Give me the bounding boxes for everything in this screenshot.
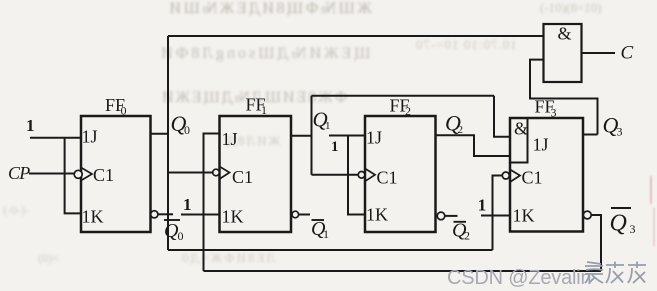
- pin 1J of FF0: [82, 127, 98, 147]
- pin C1 of FF0: [93, 165, 114, 185]
- output bubble Q-bar of FF2: [437, 212, 445, 220]
- label CP: [8, 163, 30, 183]
- wire: constant 1 to FF2 1J: [329, 135, 365, 137]
- watermark chinese glyphs: [584, 260, 646, 286]
- svg-text:3: 3: [617, 125, 623, 139]
- node Q2 label: [445, 111, 463, 137]
- svg-text:1K: 1K: [222, 207, 244, 227]
- svg-text:2: 2: [458, 124, 464, 136]
- wire: Q1 rail drop into FF3 AND input a: [494, 96, 510, 137]
- svg-text:1: 1: [325, 120, 331, 132]
- output bubble Q-bar of FF0: [151, 211, 158, 218]
- wire: Q3 output stub: [583, 134, 598, 136]
- clock bubble FF3: [502, 172, 509, 179]
- svg-text:1: 1: [183, 195, 192, 214]
- pin 1J of FF3: [533, 135, 549, 155]
- watermark CSDN: [447, 267, 591, 290]
- svg-text:2: 2: [464, 229, 470, 243]
- node Q0 label: [171, 111, 191, 137]
- svg-text:Q: Q: [610, 211, 627, 237]
- svg-text:1K: 1K: [82, 207, 104, 227]
- wire: Q1 mini rail to FF3 AND input: [312, 95, 495, 97]
- wire: Q3 up to top AND gate input: [530, 60, 598, 135]
- node Q-bar2 label: [452, 220, 470, 243]
- clock edge triangle FF0: [81, 168, 92, 181]
- svg-text:1J: 1J: [222, 129, 238, 149]
- constant 1 label at FF3 K input: [478, 196, 487, 215]
- flip-flop FF0 body: [81, 116, 151, 232]
- wire: FF2 1J to 1K connector: [348, 136, 365, 215]
- svg-text:1: 1: [26, 116, 35, 135]
- wire: Q0 to FF1 clock: [168, 172, 213, 174]
- node Q-bar1 label: [311, 218, 329, 241]
- svg-text:3: 3: [630, 222, 636, 236]
- flip-flop FF2 body: [365, 116, 436, 232]
- svg-text:0: 0: [184, 123, 190, 137]
- wire: top rail Q0 to AND gate input: [168, 35, 544, 37]
- svg-text:&: &: [514, 119, 528, 139]
- label & of FF3 AND cell: [514, 119, 528, 139]
- label FF3: [535, 97, 557, 120]
- faint pink bleed line (decorative): [650, 176, 652, 204]
- svg-text:C1: C1: [522, 168, 543, 188]
- svg-text:0: 0: [121, 104, 127, 118]
- wire: FF3 clock feed from bottom rail 1: [493, 176, 503, 251]
- svg-text:1J: 1J: [533, 135, 549, 155]
- faint page bleed-through text rows (decorative): [167, 0, 372, 18]
- svg-text:CP: CP: [8, 163, 30, 183]
- pin 1K of FF0: [82, 207, 104, 227]
- wire: bottom rail 2 (Q-bar3 to FF1 1J): [204, 270, 602, 272]
- flip-flop FF1 body: [220, 116, 292, 232]
- clock edge triangle FF3: [510, 170, 520, 183]
- label FF1: [246, 95, 268, 118]
- pin 1K of FF1: [222, 207, 244, 227]
- svg-text:1: 1: [478, 196, 487, 215]
- svg-text:1J: 1J: [82, 127, 98, 147]
- constant 1 label at FF2 inputs: [331, 139, 339, 155]
- node Q-bar0 label: [164, 220, 184, 243]
- svg-text:1: 1: [323, 227, 329, 241]
- svg-text:C1: C1: [377, 168, 398, 188]
- svg-text:1J: 1J: [366, 128, 382, 148]
- label FF2: [390, 96, 412, 119]
- label FF0: [105, 95, 127, 118]
- wire: Q1 to FF2 clock: [312, 174, 359, 176]
- svg-text:1: 1: [331, 139, 339, 155]
- AND gate U1 body (carry gate): [544, 24, 582, 82]
- node C label: [621, 43, 634, 64]
- pin 1K of FF2: [366, 205, 388, 225]
- svg-text:C1: C1: [232, 167, 253, 187]
- node Q3 label: [603, 113, 623, 139]
- clock bubble FF2: [358, 172, 365, 179]
- embedded AND cell of FF3: [510, 118, 528, 163]
- wire: constant 1 to FF1 1K: [181, 214, 220, 216]
- wire: AND gate output to C: [582, 52, 616, 54]
- svg-text:1: 1: [261, 103, 267, 117]
- wire: Q1 vertical (to top mini-rail and FF2 clock): [311, 96, 313, 175]
- constant 1 label at FF1 K input: [183, 195, 192, 214]
- svg-text:0: 0: [178, 229, 184, 243]
- node Q-bar3 label: [610, 208, 636, 237]
- clock edge triangle FF1: [220, 167, 230, 180]
- wire: FF1 1J feed from bottom rail 2: [204, 134, 220, 272]
- svg-text:3: 3: [551, 106, 557, 120]
- svg-text:C: C: [621, 43, 634, 64]
- clock bubble FF0: [74, 170, 82, 178]
- pin 1J of FF2: [366, 128, 382, 148]
- svg-text:1K: 1K: [513, 206, 535, 226]
- wire: Q-bar3 stub and drop to bottom rail 2: [591, 215, 601, 271]
- clock bubble FF1: [213, 169, 220, 176]
- wire: Q0 output stub: [151, 133, 169, 135]
- wire: constant 1 to FF0 1J: [30, 137, 81, 139]
- node Q1 label: [313, 108, 331, 133]
- svg-text:2: 2: [405, 104, 411, 118]
- wire: constant 1 to FF3 1K: [481, 215, 510, 217]
- wire: Q-bar0 stub: [158, 213, 173, 215]
- constant 1 label at FF0 J input: [26, 116, 35, 135]
- svg-text:1K: 1K: [366, 205, 388, 225]
- wire: Q-bar1 stub: [299, 214, 310, 216]
- output bubble Q-bar of FF3: [583, 211, 591, 219]
- pin 1K of FF3: [513, 206, 535, 226]
- svg-text:&: &: [558, 24, 572, 44]
- output bubble Q-bar of FF1: [292, 211, 299, 218]
- wire: Q0 vertical trunk (clock distribution): [167, 36, 169, 250]
- flip-flop FF3 body: [510, 118, 583, 232]
- pin C1 of FF2: [377, 168, 398, 188]
- pin C1 of FF3: [522, 168, 543, 188]
- wire: FF0 1J to 1K connector: [65, 138, 81, 214]
- pin 1J of FF1: [222, 129, 238, 149]
- wire: bottom rail 1 (Q0 to FF3 clock): [168, 249, 493, 251]
- wire: Q-bar2 stub: [445, 215, 458, 217]
- wire: CP to FF0 clock: [29, 173, 74, 175]
- label & of AND gate U1: [558, 24, 572, 44]
- pin C1 of FF1: [232, 167, 253, 187]
- wire: Q1 output stub: [291, 135, 312, 137]
- wire: Q2 output to FF3 AND input b: [436, 135, 511, 156]
- clock edge triangle FF2: [365, 169, 375, 182]
- svg-text:C1: C1: [93, 165, 114, 185]
